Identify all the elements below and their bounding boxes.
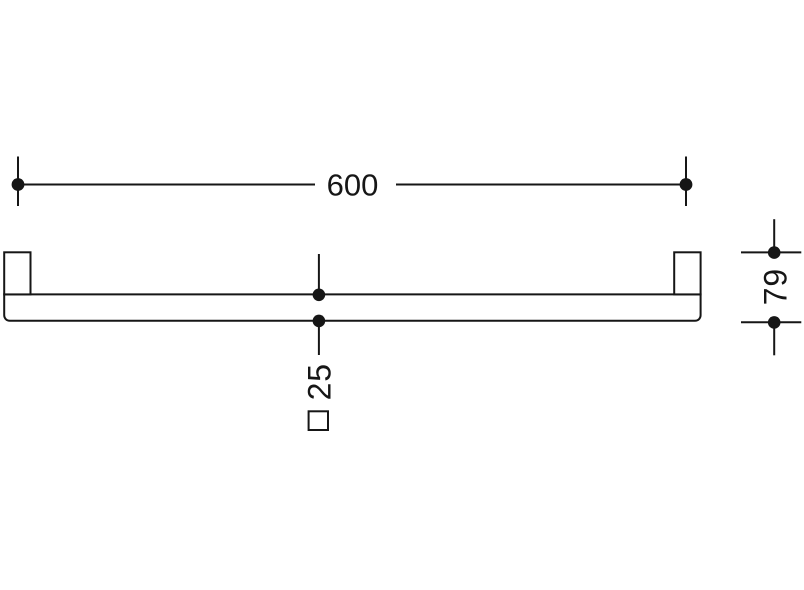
dot on bar top edge <box>313 289 326 302</box>
right wall post <box>674 252 700 294</box>
center line above bar for 25 dimension <box>318 254 320 295</box>
towel bar rail outline <box>4 294 700 320</box>
dimension dot right end of 600 <box>680 178 693 191</box>
center line below bar for 25 dimension <box>318 321 320 355</box>
svg-text:600: 600 <box>327 168 379 203</box>
dimension dot top of 79 <box>768 246 781 259</box>
svg-text:79: 79 <box>758 268 794 305</box>
extension tick bottom of 79 dimension <box>741 321 801 323</box>
extension tick right of 600 dimension <box>685 157 687 207</box>
extension tick top of 79 dimension <box>741 251 801 253</box>
square profile symbol <box>309 411 328 430</box>
dimension line 600 left segment <box>18 184 315 186</box>
dimension dot bottom of 79 <box>768 316 781 329</box>
svg-text:25: 25 <box>301 363 337 400</box>
dot on bar bottom edge <box>313 315 326 328</box>
left wall post <box>4 252 30 294</box>
dimension line 79 lower segment <box>773 322 775 355</box>
dimension dot left end of 600 <box>12 178 25 191</box>
extension tick left of 600 dimension <box>17 157 19 207</box>
dimension line 79 upper segment <box>773 219 775 252</box>
dimension line 600 right segment <box>396 184 686 186</box>
